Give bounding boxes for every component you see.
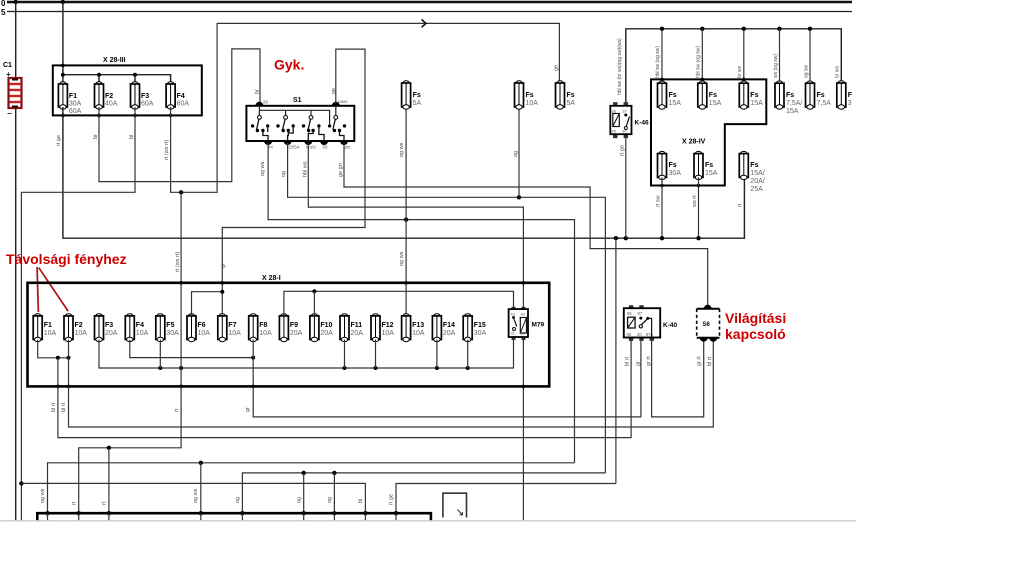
node X28-I top edge hbl-ws [522, 281, 526, 285]
S1 pin bracket pts [340, 131, 345, 142]
svg-text:3: 3 [848, 100, 852, 107]
svg-text:K-40: K-40 [663, 322, 677, 329]
node branch rt-ws-rt [179, 190, 183, 194]
S1 switch 1 pivot [258, 116, 262, 120]
node bus rt-ge fuse6 [696, 236, 700, 240]
svg-text:F7: F7 [228, 322, 236, 329]
svg-text:bl: bl [358, 499, 364, 503]
svg-text:50: 50 [323, 145, 329, 150]
svg-text:10A: 10A [382, 330, 395, 337]
wire S1 sro/s to M79 [308, 143, 523, 309]
node lower bus rt-ws-rt [179, 366, 183, 370]
fuse F4 X28-I [125, 314, 134, 342]
svg-text:Fs: Fs [526, 92, 534, 99]
node bus F10 [312, 289, 316, 293]
svg-text:31: 31 [511, 332, 515, 336]
arrow small in bottom component [458, 510, 463, 516]
svg-text:rt: rt [102, 501, 108, 505]
svg-text:10A: 10A [44, 330, 57, 337]
node X28-I bottom edge gr [251, 385, 255, 389]
node og-ws branch [199, 461, 203, 465]
fuse Fs 10A [515, 81, 524, 109]
svg-text:F11: F11 [351, 322, 363, 329]
svg-text:K-46: K-46 [635, 120, 649, 127]
wire bl lower run [21, 483, 365, 513]
svg-text:S6: S6 [703, 322, 711, 328]
S1 switch 4 pivot [334, 116, 338, 120]
wire Fs10A drop [518, 107, 520, 197]
S1 switch 2 pivot [284, 116, 288, 120]
fuse Fs 30A X28-IV lower [658, 151, 667, 179]
node bottom box pin 1 [45, 511, 49, 515]
node bus rt-ge fuse5 [660, 236, 664, 240]
svg-text:og ws: og ws [399, 251, 405, 266]
node bottom box pin 4 [199, 511, 203, 515]
svg-text:og: og [235, 497, 241, 503]
fuse F1 X28-I [33, 314, 42, 342]
node tap battery on bus 0 [14, 0, 18, 4]
svg-text:30: 30 [637, 332, 642, 337]
node X28-IV top edge f1 [660, 78, 664, 82]
wire F4 to F8 connector [130, 340, 253, 358]
svg-text:87: 87 [638, 311, 643, 316]
wire X28-III internal bus [63, 75, 171, 84]
svg-text:30A: 30A [166, 330, 179, 337]
svg-text:gr rt: gr rt [697, 356, 703, 366]
svg-text:40A: 40A [105, 101, 118, 108]
node og branch 2 [332, 471, 336, 475]
box X 28-III [53, 65, 202, 115]
wire S1 right terminal to gr drop [222, 49, 365, 316]
S6 bottom pin bump left [700, 338, 708, 342]
node bus fuse2 [700, 27, 704, 31]
fuse F5 X28-I [156, 314, 165, 342]
wire battery top [15, 2, 17, 78]
fuse F12 X28-I [371, 314, 380, 342]
node X28-IV bottom edge f6 [697, 184, 701, 188]
S1 internal bus [259, 106, 329, 124]
node X28-III bottom edge F4 [169, 114, 173, 118]
svg-text:Fs: Fs [817, 92, 825, 99]
S1 pin bracket 15/54 [287, 131, 290, 142]
node bottom box pin 2 [77, 511, 81, 515]
svg-text:30: 30 [263, 100, 269, 105]
node bottom box pin 3 [107, 511, 111, 515]
fuse F2 X28-III [95, 82, 104, 109]
switch S6 [697, 309, 720, 338]
svg-text:F9: F9 [290, 322, 298, 329]
fuse F3 X28-I [95, 314, 104, 342]
svg-text:X 28-III: X 28-III [103, 57, 126, 64]
svg-text:bl rt: bl rt [707, 356, 713, 366]
node F8 joint [251, 356, 255, 360]
node X28-III bottom edge F3 [133, 114, 137, 118]
fuse F15 X28-I [463, 314, 472, 342]
svg-text:Fs: Fs [750, 92, 758, 99]
svg-text:10A: 10A [259, 330, 272, 337]
node bottom box pin 8 [363, 511, 367, 515]
box small bottom component [443, 493, 467, 517]
svg-text:X 28-I: X 28-I [262, 275, 281, 282]
svg-text:87: 87 [623, 109, 628, 114]
wire F14 bottom stub [436, 340, 438, 369]
wire drop fuse1 [661, 29, 663, 83]
svg-text:F5: F5 [166, 322, 174, 329]
node bottom box pin 7 [332, 511, 336, 515]
node bottom box pin 9 [394, 511, 398, 515]
node X28-I bottom edge blrt2 [67, 385, 71, 389]
svg-text:rt: rt [174, 408, 180, 412]
wire og ws fuse drop to X28-I [405, 107, 407, 316]
wire rt to bottom box [79, 386, 181, 513]
wire F12 bottom stub [375, 340, 377, 369]
wire F15 bottom stub [467, 340, 469, 369]
S6 bottom pin bump right [709, 338, 717, 342]
svg-text:F1: F1 [69, 93, 77, 100]
switch S1 box [246, 106, 354, 141]
relay K-46 [610, 102, 631, 138]
fuse F2 X28-I [64, 314, 73, 342]
svg-text:M79: M79 [532, 322, 545, 329]
svg-text:F2: F2 [105, 93, 113, 100]
red arrow to F1 [37, 267, 38, 312]
wire og-ws lower run [48, 463, 575, 513]
svg-text:gr: gr [221, 263, 227, 268]
svg-text:60A: 60A [141, 101, 154, 108]
node X28-I bottom edge M79 [522, 385, 526, 389]
svg-text:F: F [848, 92, 853, 99]
svg-text:Fs: Fs [669, 92, 677, 99]
svg-text:rt: rt [738, 203, 744, 207]
svg-text:ws (og sw): ws (og sw) [773, 54, 779, 78]
wire F3 top stub [134, 75, 136, 84]
svg-text:kapcsoló: kapcsoló [725, 326, 786, 342]
svg-text:br: br [93, 134, 99, 139]
S1 switch 1 lever [257, 119, 259, 129]
fuse F10 X28-I [310, 314, 319, 342]
svg-text:br ws: br ws [737, 66, 743, 78]
svg-text:85: 85 [627, 311, 632, 316]
S1 terminal right bump [332, 102, 340, 106]
S1 pin 50 bump [320, 141, 328, 145]
svg-text:15A: 15A [669, 100, 682, 107]
svg-text:60A: 60A [69, 108, 82, 115]
svg-text:30A: 30A [474, 330, 487, 337]
S1 switch 3 pivot [309, 116, 313, 120]
node bus fuse5 [808, 27, 812, 31]
svg-text:15A: 15A [705, 170, 718, 177]
node tap F1 feed on bus 0 [61, 0, 65, 4]
svg-text:Fs: Fs [705, 162, 713, 169]
node og junction Fs10A [517, 195, 521, 199]
wire bottom stubs [48, 513, 397, 520]
svg-text:Fs: Fs [413, 92, 421, 99]
fuse F9 X28-I [279, 314, 288, 342]
wire bl-rt-2 to S6 right [69, 341, 714, 427]
node X28-I bottom edge blrt1 [56, 385, 60, 389]
svg-text:Fs: Fs [669, 162, 677, 169]
S1 switch 2 lever [283, 119, 286, 129]
svg-text:S1: S1 [293, 97, 302, 104]
svg-text:int: int [268, 145, 274, 150]
svg-text:30A: 30A [669, 170, 682, 177]
wire bl-rt-1 to K-40 86 [58, 341, 631, 438]
svg-text:og ws: og ws [193, 488, 199, 503]
wire drop fuse4 [779, 29, 781, 83]
wire F11 bottom stub [344, 340, 346, 369]
svg-text:5: 5 [1, 8, 6, 17]
wire rt branch down [108, 448, 110, 513]
node X28-III top edge crossing [61, 64, 65, 68]
battery C1 [9, 78, 22, 108]
wire F1 bottom connector [38, 340, 69, 358]
wire F3 to lower bus [99, 337, 514, 368]
node rt branch [107, 446, 111, 450]
node internal bus F1 [61, 73, 65, 77]
svg-text:86: 86 [612, 109, 617, 114]
svg-text:0: 0 [1, 0, 6, 8]
node bus rt-ge k46 [624, 236, 628, 240]
svg-text:F15: F15 [474, 322, 486, 329]
wire drop fuse3 [743, 29, 745, 83]
S1 pin bracket sro/s [308, 131, 313, 142]
svg-text:15A: 15A [786, 108, 799, 115]
svg-text:F4: F4 [136, 322, 144, 329]
fuse F11 X28-I [340, 314, 349, 342]
svg-text:rt sw: rt sw [656, 195, 662, 207]
svg-text:15/54: 15/54 [288, 145, 300, 150]
relay M79 [509, 307, 528, 340]
S1 switch 4 lever [333, 119, 335, 129]
wire fuse6 down to bus [698, 177, 700, 238]
svg-text:20A: 20A [290, 330, 303, 337]
svg-text:F10: F10 [320, 322, 332, 329]
svg-text:gr: gr [245, 407, 251, 412]
node lower bus F12 [374, 366, 378, 370]
node X28-I bottom edge rt [179, 385, 183, 389]
svg-text:gr: gr [636, 361, 642, 366]
svg-text:bl rt: bl rt [61, 402, 67, 412]
svg-text:sro/s: sro/s [306, 145, 317, 150]
node bottom box pin 5 [240, 511, 244, 515]
wire drop fuse2 [701, 29, 703, 83]
fuse F13 X28-I [402, 314, 411, 342]
node X28-I top edge og-ws [404, 281, 408, 285]
svg-text:og ws: og ws [399, 142, 405, 157]
fuse F6 X28-I [187, 314, 196, 342]
node X28-III bottom edge F2 [97, 114, 101, 118]
node bl junction left [19, 481, 23, 485]
svg-text:bl: bl [129, 135, 135, 139]
wire S1 15/54 to right [288, 143, 606, 473]
wire F8 bottom through [252, 340, 254, 387]
svg-text:hbl ws: hbl ws [303, 161, 309, 177]
wire S1 int to right [268, 143, 574, 463]
S1 pin bracket 50 [319, 126, 324, 141]
fuse F 3 rightmost [837, 81, 846, 109]
svg-text:ge: ge [554, 65, 560, 71]
svg-text:og: og [297, 497, 303, 503]
fuse Fs 7,5A [806, 81, 815, 109]
wire F4 down to connector [171, 23, 560, 192]
svg-text:F13: F13 [412, 322, 424, 329]
wire K-46 30 down [625, 138, 627, 238]
wire bl-rt drop 1 [57, 358, 59, 387]
svg-text:bl rt: bl rt [625, 356, 631, 366]
svg-text:og: og [513, 151, 519, 157]
node gr branch [220, 290, 224, 294]
node bus fuse3 [742, 27, 746, 31]
box X 28-IV [651, 79, 766, 185]
S1 terminal 30 bump [255, 102, 263, 106]
svg-text:Fs: Fs [567, 92, 575, 99]
bus 5 wire [7, 11, 852, 13]
svg-text:F2: F2 [75, 322, 83, 329]
svg-text:rt (ws rt): rt (ws rt) [164, 140, 170, 160]
fuse Fs 15A no1 X28-IV [658, 81, 667, 109]
svg-text:F14: F14 [443, 322, 455, 329]
svg-text:hbl sw (og sw): hbl sw (og sw) [696, 46, 702, 78]
svg-text:F4: F4 [177, 93, 185, 100]
wire F3 to left drop [21, 107, 135, 521]
svg-text:rt ge: rt ge [56, 135, 62, 146]
svg-text:Fs: Fs [750, 162, 758, 169]
node lower bus F5 [158, 366, 162, 370]
S1 contact dots row B [256, 129, 341, 132]
svg-text:rt: rt [72, 501, 78, 505]
svg-text:7,5A/: 7,5A/ [786, 100, 802, 107]
wire K-40 87a to S6 left [652, 341, 704, 417]
relay K-40 [624, 305, 660, 341]
fuse F3 X28-III [131, 82, 140, 109]
svg-text:bl rt: bl rt [51, 402, 57, 412]
svg-text:5A: 5A [413, 100, 422, 107]
svg-text:hbl sw (og sw): hbl sw (og sw) [655, 46, 661, 78]
node X28-I top edge rt-ws-rt [179, 281, 183, 285]
node lower bus F14 [435, 366, 439, 370]
S1 contact dots row A [251, 124, 346, 127]
svg-text:ge gn: ge gn [338, 163, 344, 177]
svg-text:Fs: Fs [709, 92, 717, 99]
node internal bus F3 [133, 73, 137, 77]
svg-text:F1: F1 [44, 322, 52, 329]
wire F1 down main rt-ge bus [63, 107, 745, 238]
node X28-IV top edge f3 [742, 78, 746, 82]
svg-text:25A: 25A [750, 186, 763, 193]
fuse Fs 15A no2 X28-IV [698, 81, 707, 109]
svg-text:og ws: og ws [260, 161, 266, 176]
node F1-F2 joint 2 [67, 356, 71, 360]
svg-text:−: − [7, 109, 12, 118]
svg-text:20A/: 20A/ [750, 178, 764, 185]
bus 0 wire [7, 1, 852, 3]
box X 28-I [28, 283, 550, 387]
node X28-I top edge gr [221, 281, 225, 285]
wire F5 bottom stub [159, 340, 161, 369]
fuse F1 X28-III [58, 82, 67, 109]
svg-text:7,5A: 7,5A [817, 100, 832, 107]
fuse F4 X28-III [166, 82, 175, 109]
svg-text:pass: pass [338, 99, 348, 104]
svg-text:30A: 30A [69, 101, 82, 108]
wire fuse5 down to bus [661, 177, 663, 238]
node bus fuse4 [777, 27, 781, 31]
svg-text:10A: 10A [75, 330, 88, 337]
svg-text:20A: 20A [443, 330, 456, 337]
wire S1 pts to S6 [344, 143, 708, 309]
svg-text:Világítási: Világítási [725, 310, 786, 326]
svg-text:Fs: Fs [786, 92, 794, 99]
S1 pin int bump [264, 141, 272, 145]
wire rt-ws-rt through box [180, 316, 182, 387]
svg-text:og: og [281, 171, 287, 177]
node internal bus F2 [97, 73, 101, 77]
wire bus0 down to X28-III F1 [62, 2, 64, 84]
svg-text:10A: 10A [526, 100, 539, 107]
fuse Fs 5A second [556, 81, 565, 109]
fuse Fs 15A no3 X28-IV [739, 81, 748, 109]
faint cut line bottom [0, 520, 856, 522]
wire og branch 1 down [303, 473, 305, 513]
svg-text:rt ge: rt ge [620, 145, 626, 156]
svg-text:og: og [327, 497, 333, 503]
svg-text:10A: 10A [412, 330, 425, 337]
svg-text:Gyk.: Gyk. [274, 57, 304, 73]
svg-text:og ws: og ws [40, 488, 46, 503]
svg-text:Távolsági fényhez: Távolsági fényhez [6, 251, 127, 267]
fuse F14 X28-I [432, 314, 441, 342]
fuse Fs 7,5A/15A [775, 81, 784, 109]
node lower bus F15 [466, 366, 470, 370]
svg-text:pts: pts [345, 145, 352, 150]
svg-text:br ws: br ws [835, 66, 841, 78]
wire F6 F7 connector [192, 292, 223, 316]
wire rt-ws-rt down into X28-I [180, 192, 182, 316]
S1 pin pts bump [340, 141, 348, 145]
node bottom box pin 6 [302, 511, 306, 515]
svg-text:85: 85 [612, 129, 617, 134]
node X28-IV top edge f2 [701, 78, 705, 82]
svg-text:87a: 87a [646, 332, 654, 337]
svg-text:C1: C1 [3, 62, 12, 69]
node lower bus F11 [343, 366, 347, 370]
S1 pin 15/54 bump [284, 141, 292, 145]
wire og branch 2 down [333, 473, 335, 513]
wire gr to K-40 30 [253, 341, 641, 417]
S1 pin sro/s bump [304, 141, 312, 145]
fuse Fs 5A first [402, 81, 411, 109]
node X28-IV bottom edge f5 [660, 184, 664, 188]
wire F2 to S1 pin30 [99, 49, 260, 182]
wire rt-ge lower run [396, 484, 616, 514]
svg-text:A2: A2 [521, 313, 526, 317]
svg-text:20A: 20A [105, 330, 118, 337]
svg-text:15A: 15A [709, 100, 722, 107]
box bottom connector top edge [37, 513, 431, 520]
svg-text:15A: 15A [750, 100, 763, 107]
svg-text:br: br [255, 89, 261, 94]
wire internal bus F9 to M79 [284, 291, 514, 316]
svg-text:10A: 10A [198, 330, 211, 337]
svg-text:60A: 60A [177, 101, 190, 108]
svg-text:F3: F3 [141, 93, 149, 100]
svg-text:X 28-IV: X 28-IV [682, 139, 706, 146]
svg-text:F6: F6 [198, 322, 206, 329]
arrow marker on wire [422, 20, 427, 28]
wire M79 A2 down through box [522, 337, 524, 521]
svg-text:rt (ws rt): rt (ws rt) [175, 252, 181, 272]
node bus rt-ge drop615 [614, 236, 618, 240]
